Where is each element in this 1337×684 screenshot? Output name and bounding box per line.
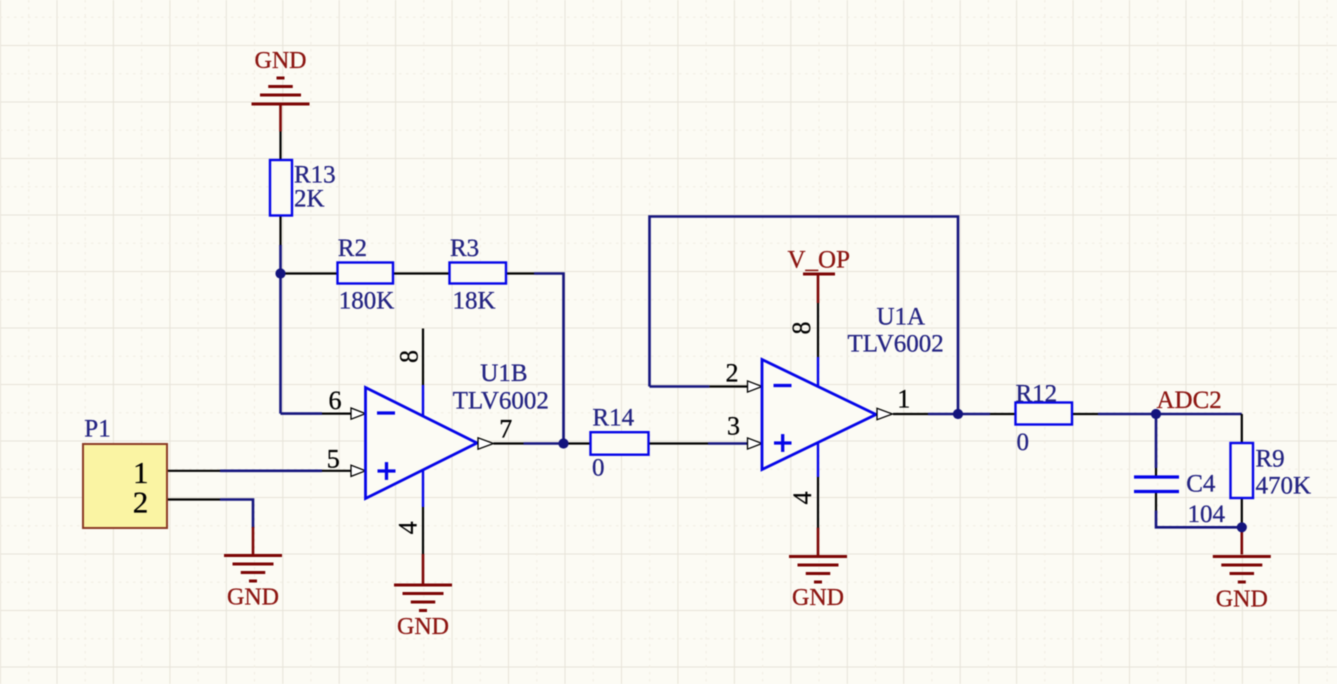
svg-text:P1: P1 — [84, 416, 110, 443]
svg-text:0: 0 — [592, 455, 605, 482]
svg-text:18K: 18K — [453, 288, 496, 315]
svg-text:180K: 180K — [339, 288, 395, 315]
svg-text:GND: GND — [255, 48, 307, 74]
svg-text:C4: C4 — [1186, 471, 1216, 498]
svg-text:0: 0 — [1017, 429, 1030, 456]
svg-text:1: 1 — [897, 385, 910, 414]
svg-text:4: 4 — [394, 521, 423, 534]
svg-text:4: 4 — [788, 492, 817, 505]
svg-text:470K: 470K — [1256, 473, 1312, 500]
svg-text:2: 2 — [133, 485, 149, 520]
svg-text:7: 7 — [499, 415, 512, 444]
svg-text:TLV6002: TLV6002 — [848, 331, 944, 358]
svg-text:GND: GND — [1216, 587, 1268, 613]
svg-text:R3: R3 — [450, 235, 479, 262]
svg-text:2K: 2K — [294, 186, 325, 213]
svg-text:2: 2 — [726, 359, 739, 388]
svg-text:6: 6 — [329, 386, 342, 415]
svg-text:8: 8 — [787, 322, 816, 335]
svg-text:R14: R14 — [592, 405, 634, 432]
svg-text:R13: R13 — [294, 162, 336, 189]
svg-text:TLV6002: TLV6002 — [453, 388, 549, 415]
svg-text:ADC2: ADC2 — [1157, 387, 1222, 414]
svg-text:GND: GND — [792, 585, 844, 611]
svg-text:104: 104 — [1188, 501, 1226, 528]
svg-text:8: 8 — [395, 350, 424, 363]
svg-text:3: 3 — [727, 412, 740, 441]
svg-text:R2: R2 — [338, 235, 367, 262]
svg-text:GND: GND — [227, 585, 279, 611]
svg-text:U1A: U1A — [877, 304, 926, 331]
svg-text:V_OP: V_OP — [788, 247, 851, 274]
svg-text:U1B: U1B — [480, 360, 527, 387]
svg-text:5: 5 — [327, 444, 340, 473]
svg-text:R9: R9 — [1256, 446, 1285, 473]
svg-text:GND: GND — [397, 614, 449, 640]
svg-text:R12: R12 — [1016, 380, 1058, 407]
